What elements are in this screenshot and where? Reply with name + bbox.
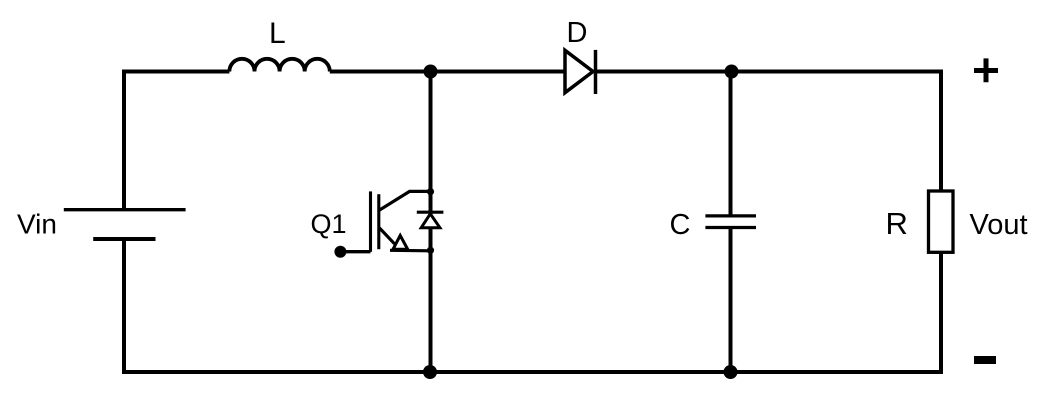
svg-text:R: R: [886, 206, 908, 241]
diode D cathode bar: [594, 50, 598, 94]
transistor Q1 collector junction dot: [427, 188, 434, 195]
transistor Q1 body bar: [377, 194, 380, 249]
transistor Q1 emitter lead: [390, 249, 431, 253]
svg-text:Vout: Vout: [970, 209, 1028, 241]
transistor Q1 emitter arrow: [393, 236, 408, 250]
svg-text:L: L: [269, 17, 286, 50]
svg-text:Vin: Vin: [17, 209, 57, 240]
wire top-left corner and left rail down to battery: [124, 72, 229, 210]
resistor R body: [929, 191, 954, 252]
battery Vin short plate: [93, 237, 155, 241]
transistor Q1 gate terminal dot: [334, 246, 346, 258]
capacitor C top plate: [705, 214, 756, 217]
battery Vin long plate: [64, 208, 186, 211]
node dot top capacitor: [725, 65, 739, 79]
diode D triangle: [565, 50, 593, 92]
svg-text:C: C: [670, 209, 691, 241]
antiparallel diode cathode bar: [417, 211, 444, 214]
transistor Q1 emitter junction dot: [427, 247, 434, 254]
capacitor C bottom plate: [705, 226, 756, 229]
transistor Q1 emitter diagonal: [379, 227, 395, 244]
plus terminal symbol: [974, 58, 998, 82]
node dot bottom switch: [423, 365, 437, 379]
wire capacitor top lead: [729, 72, 733, 217]
wire capacitor bottom lead: [729, 228, 733, 373]
svg-text:Q1: Q1: [311, 209, 347, 239]
antiparallel diode triangle: [421, 214, 440, 228]
transistor Q1 gate bar: [369, 191, 372, 251]
node dot bottom capacitor: [724, 365, 738, 379]
wire battery bottom, bottom rail, right rail, top-right rail to diode: [124, 72, 941, 373]
minus terminal symbol: [974, 356, 996, 364]
transistor Q1 collector lead: [379, 191, 431, 210]
svg-text:D: D: [567, 17, 588, 49]
inductor L: [229, 59, 329, 72]
wire top rail from inductor to diode D: [330, 70, 567, 74]
wire middle vertical rail (switch leg): [429, 72, 433, 373]
transistor Q1 gate lead wire: [340, 250, 370, 253]
node dot top switch: [424, 65, 438, 79]
